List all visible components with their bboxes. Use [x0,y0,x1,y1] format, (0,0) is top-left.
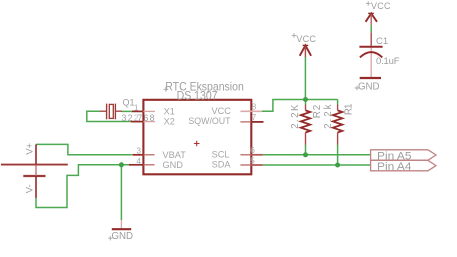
wire R1 bottom lead green crossing SCL [337,145,339,166]
VCC symbol middle arrow [300,45,311,55]
svg-text:VBAT: VBAT [163,150,187,160]
svg-text:4: 4 [136,156,141,166]
svg-text:R2: R2 [312,105,323,119]
svg-text:GND: GND [358,82,380,93]
svg-text:5: 5 [250,155,255,165]
IC origin cross [194,141,200,147]
capacitor C1 top lead [370,32,372,47]
svg-text:SCL: SCL [212,149,230,159]
svg-text:VCC: VCC [371,1,391,11]
svg-text:DS 1307: DS 1307 [177,91,218,103]
crystal Q1 left pin [100,110,107,112]
wire SDA net pin 5 to flag A4 [263,164,371,166]
resistor R1 bottom pin red [337,133,339,145]
svg-text:SQW/OUT: SQW/OUT [188,116,231,126]
pin 5 SDA outer [251,164,263,166]
pin 2 X2 outer [131,121,144,123]
junction dot SCL R2 [303,152,308,157]
crystal Q1 left plate [106,104,108,120]
svg-text:2.2k: 2.2k [323,104,334,129]
svg-text:C1: C1 [376,36,388,47]
wire X1 net crystal right to pin 1 [122,110,132,112]
resistor R1 top pin red [337,105,339,111]
pin 6 SCL inner [240,154,251,156]
VCC symbol right stem [370,13,372,25]
pin 1 X1 inner [143,110,155,112]
ground symbol right bar [360,77,381,79]
resistor R2 zigzag [301,110,310,132]
VCC symbol middle top tick [303,44,309,46]
wire X2 net crystal left loop to pin 2 [87,111,131,121]
pin 3 VBAT outer [132,154,143,156]
svg-text:0.1uF: 0.1uF [376,56,400,67]
wire R2 bottom lead green [305,145,307,155]
ground symbol bottom pin pale [120,220,122,229]
crystal Q1 body rect [109,104,113,118]
pin 5 SDA inner [240,164,251,166]
pin 3 VBAT inner [143,154,154,156]
resistor R1 zigzag [333,110,342,132]
svg-text:X1: X1 [164,106,175,116]
wire VCC net from pin 8 up and across to resistors [262,100,338,112]
svg-text:R1: R1 [344,104,355,116]
wire VBAT net from battery plus to pin 3 [36,144,132,154]
pin 4 GND inner [143,164,154,166]
wire GND net staircase from battery minus to junction [36,165,129,208]
pin 7 SQW/OUT inner [240,121,251,123]
battery B1 inner pin line [35,165,37,176]
wire GND net junction to ground symbol [120,165,122,220]
VCC symbol right top tick [368,12,374,14]
wire VCC symbol drop middle [304,57,306,100]
junction dot VCC R2 [303,97,308,102]
battery B1 top pin [35,144,37,164]
flag Pin A5 outline [371,150,436,160]
pin 1 X1 outer [132,110,144,112]
text origin cross VCC right [366,1,371,6]
text origin cross GND right [355,86,360,91]
capacitor C1 through line [370,47,372,78]
text origin cross VCC middle [292,33,297,38]
battery B1 bottom pin [35,176,37,198]
ground symbol bottom bar [112,228,131,230]
wire R2 top lead green [305,100,307,105]
svg-text:V-: V- [25,184,36,193]
svg-text:Pin A4: Pin A4 [377,161,412,173]
svg-text:SDA: SDA [212,160,232,170]
svg-text:V+: V+ [25,142,36,154]
text origin cross GND bottom [108,236,113,241]
svg-text:GND: GND [163,160,184,170]
junction dot GND battery [119,162,124,167]
svg-text:X2: X2 [164,117,175,127]
svg-text:VCC: VCC [212,106,232,116]
resistor R2 top pin red [305,105,307,111]
svg-text:Q1: Q1 [123,98,135,108]
svg-text:3: 3 [136,146,141,156]
svg-text:8: 8 [252,102,257,112]
svg-text:2: 2 [134,113,139,123]
svg-text:VCC: VCC [296,34,316,44]
resistor R2 bottom pin red [305,133,307,145]
capacitor C1 top plate [359,46,382,48]
text origin cross RTC [163,87,168,92]
wire R1 top lead green [337,100,339,105]
pin 6 SCL outer [251,154,263,156]
pin 2 X2 inner [143,121,155,123]
svg-text:GND: GND [112,231,134,242]
svg-text:2.2K: 2.2K [290,104,301,129]
battery B1 plus plate [1,164,68,166]
crystal Q1 right plate [114,104,116,120]
junction dot SDA R1 [335,163,340,168]
wire right VCC to C1 short green [370,25,372,32]
battery B1 minus plate [23,175,45,177]
capacitor C1 bottom plate curved [360,52,382,57]
svg-text:6: 6 [250,145,255,155]
IC U1 DS1307 box [143,100,251,175]
pin 4 GND outer [129,164,144,166]
crystal Q1 right pin [115,110,122,112]
pin 8 VCC pale line [240,110,262,112]
flag Pin A4 outline [371,160,436,170]
pin 7 SQW/OUT outer [251,121,263,123]
VCC symbol right arrow [366,13,377,21]
VCC symbol middle stem [304,45,306,57]
wire SCL net pin 6 to flag A5 [263,154,371,156]
svg-text:7: 7 [252,112,257,122]
svg-text:1: 1 [134,102,139,112]
